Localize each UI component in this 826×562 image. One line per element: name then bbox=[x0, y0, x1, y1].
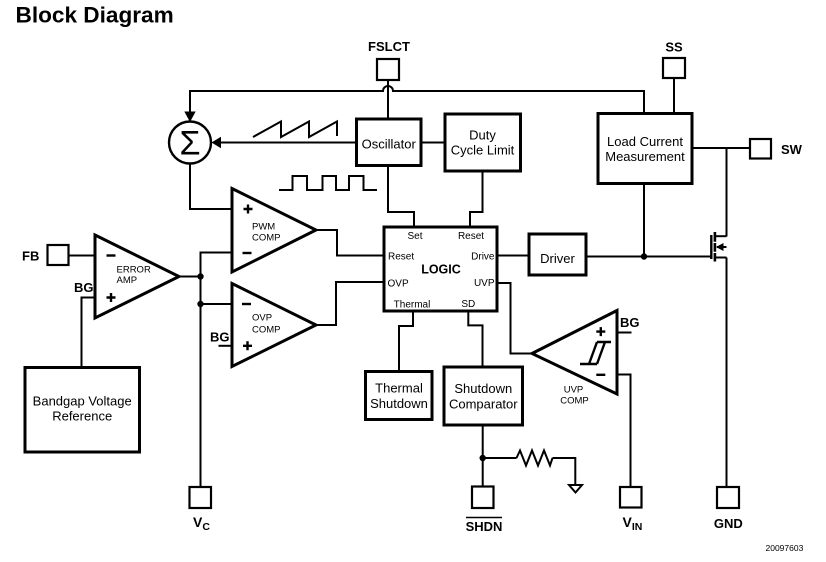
svg-text:Duty: Duty bbox=[469, 128, 496, 143]
svg-text:UVP: UVP bbox=[474, 278, 495, 289]
wire FSLCT to oscillator bbox=[387, 80, 389, 119]
svg-text:Reference: Reference bbox=[52, 409, 112, 424]
wire oscillator to logic Set bbox=[388, 166, 414, 228]
svg-text:PWM: PWM bbox=[252, 222, 275, 233]
pin VC bbox=[190, 487, 212, 508]
svg-text:LOGIC: LOGIC bbox=[421, 263, 461, 277]
svg-text:OVP: OVP bbox=[252, 313, 272, 324]
pin SHDN bbox=[472, 487, 494, 509]
thermal shutdown block bbox=[366, 372, 433, 420]
svg-text:Measurement: Measurement bbox=[605, 149, 685, 164]
wire duty cycle limit to logic Reset bbox=[470, 171, 483, 227]
svg-text:Σ: Σ bbox=[179, 125, 200, 163]
op-amp ERROR AMP bbox=[95, 235, 179, 318]
hysteresis symbol bbox=[580, 342, 611, 364]
wire oscillator to summing junction bbox=[220, 142, 356, 144]
node junction dot shdn bbox=[480, 455, 486, 461]
svg-text:GND: GND bbox=[714, 516, 743, 531]
wire SS to load current measurement bbox=[673, 78, 675, 113]
wire uvp minus to VIN bbox=[617, 375, 631, 488]
svg-text:COMP: COMP bbox=[252, 325, 281, 336]
wire bandgap to error amp + bbox=[82, 298, 96, 368]
wire feedback top (sigma to load current measurement, with hop) bbox=[190, 86, 644, 113]
wire shutdown comparator to SHDN bbox=[482, 425, 484, 487]
wire BG stub to uvp + bbox=[617, 332, 632, 334]
duty cycle limit block bbox=[445, 114, 521, 171]
wire logic Drive to driver bbox=[497, 255, 529, 257]
wire OVP output to logic OVP bbox=[316, 282, 384, 325]
svg-text:Load Current: Load Current bbox=[607, 134, 683, 149]
wire vc rail with PWM minus branch bbox=[201, 253, 233, 488]
arrowhead into summing junction top bbox=[184, 112, 195, 123]
pin VIN bbox=[620, 487, 642, 508]
svg-text:Thermal: Thermal bbox=[394, 300, 431, 311]
node junction dot at drive bbox=[641, 253, 647, 259]
wire to OVP minus bbox=[201, 303, 233, 305]
svg-text:COMP: COMP bbox=[560, 396, 589, 407]
svg-text:Bandgap Voltage: Bandgap Voltage bbox=[33, 394, 132, 409]
svg-text:BG: BG bbox=[620, 315, 640, 330]
pin GND bbox=[717, 487, 739, 508]
load current measurement block bbox=[598, 114, 692, 184]
svg-text:FB: FB bbox=[22, 249, 39, 264]
svg-text:Thermal: Thermal bbox=[375, 381, 423, 396]
svg-text:SD: SD bbox=[461, 299, 475, 310]
arrowhead into summing junction right bbox=[212, 137, 222, 148]
ground bbox=[569, 485, 582, 493]
svg-text:Oscillator: Oscillator bbox=[362, 137, 417, 152]
wire logic Thermal to thermal shutdown bbox=[399, 311, 413, 372]
wire oscillator to duty cycle limit bbox=[421, 142, 445, 144]
svg-text:COMP: COMP bbox=[252, 233, 281, 244]
wire logic SD to shutdown comparator bbox=[468, 311, 482, 367]
wire load current measurement to SW bbox=[692, 147, 750, 149]
svg-text:Shutdown: Shutdown bbox=[454, 381, 512, 396]
svg-text:Set: Set bbox=[407, 231, 422, 242]
sawtooth waveform icon bbox=[253, 122, 337, 138]
logic block bbox=[384, 227, 497, 311]
wire PWM output to logic Reset bbox=[316, 230, 384, 256]
svg-text:20097603: 20097603 bbox=[766, 543, 804, 553]
comparator UVP COMP bbox=[532, 311, 617, 395]
wire logic UVP to uvp comp output bbox=[497, 283, 532, 354]
svg-text:Shutdown: Shutdown bbox=[370, 396, 428, 411]
wire driver to mosfet gate bbox=[586, 256, 711, 258]
svg-text:Comparator: Comparator bbox=[449, 397, 518, 412]
svg-text:Cycle Limit: Cycle Limit bbox=[451, 143, 515, 158]
node junction dot bbox=[197, 273, 203, 279]
svg-text:Reset: Reset bbox=[388, 252, 414, 263]
svg-text:VIN: VIN bbox=[623, 514, 643, 533]
svg-text:BG: BG bbox=[210, 330, 230, 345]
svg-text:SHDN: SHDN bbox=[466, 519, 503, 534]
svg-text:OVP: OVP bbox=[388, 279, 409, 290]
wire resistor to ground bbox=[553, 458, 576, 485]
wire node to resistor bbox=[483, 457, 517, 459]
wire mosfet source to GND bbox=[726, 258, 728, 488]
svg-text:SW: SW bbox=[781, 142, 803, 157]
comparator PWM COMP bbox=[232, 189, 316, 273]
svg-text:VC: VC bbox=[193, 514, 210, 533]
svg-text:BG: BG bbox=[74, 280, 94, 295]
wire BG stub to ovp + bbox=[219, 345, 233, 347]
summing junction U1 bbox=[169, 122, 211, 164]
pin SW bbox=[750, 139, 771, 159]
shutdown comparator block bbox=[444, 367, 523, 425]
oscillator block bbox=[357, 119, 422, 166]
wire error amp output bbox=[179, 276, 201, 278]
resistor R1 bbox=[517, 451, 553, 466]
svg-text:Block Diagram: Block Diagram bbox=[16, 3, 174, 28]
driver block bbox=[529, 234, 586, 275]
node junction dot ovp bbox=[197, 301, 203, 307]
square wave icon bbox=[279, 176, 377, 190]
svg-text:AMP: AMP bbox=[117, 275, 138, 286]
transistor Q1 nmos bbox=[710, 235, 712, 259]
svg-text:UVP: UVP bbox=[564, 385, 584, 396]
svg-text:Drive: Drive bbox=[471, 252, 495, 263]
comparator OVP COMP bbox=[232, 284, 316, 367]
svg-text:ERROR: ERROR bbox=[117, 265, 151, 276]
svg-text:Reset: Reset bbox=[458, 231, 484, 242]
wire FB to error amp bbox=[69, 255, 96, 257]
svg-text:Driver: Driver bbox=[540, 251, 575, 266]
wire SW branch down to mosfet drain bbox=[726, 148, 728, 237]
svg-text:SS: SS bbox=[665, 40, 683, 55]
wire summing junction to PWM + input bbox=[190, 164, 232, 210]
svg-text:FSLCT: FSLCT bbox=[368, 39, 410, 54]
wire load current measurement to drive node bbox=[643, 184, 645, 257]
bandgap voltage reference block bbox=[25, 368, 140, 453]
